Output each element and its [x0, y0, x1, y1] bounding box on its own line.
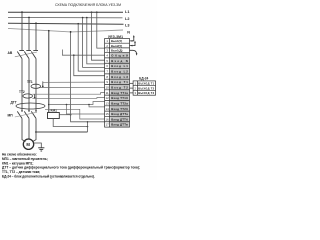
svg-text:ДТТ: ДТТ — [11, 100, 17, 104]
node branch to terminal 14 — [88, 104, 90, 106]
block ED-24 terminal table — [133, 81, 155, 95]
wire UEZ r10 to ED r2 — [130, 87, 134, 89]
bus L1 — [8, 11, 123, 13]
svg-text:Вход Т1: Вход Т1 — [111, 80, 128, 84]
differential transformer DTT — [16, 103, 45, 109]
node tap L3 phase C — [35, 22, 37, 24]
wire TT2 lower to terminal 12 — [32, 97, 104, 100]
svg-text:КМ1 – катушка МП1;: КМ1 – катушка МП1; — [2, 161, 33, 165]
wire riser to terminal 17 line — [87, 122, 89, 132]
node DTT upper junction — [48, 104, 50, 106]
node L1 tap S5 — [91, 11, 93, 13]
svg-text:14: 14 — [106, 107, 110, 111]
svg-text:Вход ДТТа: Вход ДТТа — [111, 112, 128, 116]
wire phase B bottom — [28, 118, 30, 139]
svg-text:Вход Т2: Вход Т2 — [111, 86, 128, 90]
svg-text:12: 12 — [106, 96, 110, 100]
legend — [2, 153, 140, 179]
wire phase B top — [28, 18, 30, 51]
node L2 tap S6 — [86, 17, 88, 19]
wire branch to terminal 8b — [74, 55, 105, 75]
svg-text:Вых1(Д): Вых1(Д) — [111, 49, 122, 53]
svg-text:Вход L3: Вход L3 — [111, 75, 128, 79]
wire TT1 lower to terminal 10 — [41, 86, 105, 88]
wire L1 to terminal 5 — [92, 12, 105, 60]
svg-text:16: 16 — [106, 117, 110, 121]
svg-text:Вход ТТ1б: Вход ТТ1б — [111, 96, 128, 100]
node coil-return junction — [87, 126, 89, 128]
wire UEZ r9 to ED r1 — [130, 82, 134, 84]
wire coil to terminal 17 — [53, 119, 87, 127]
wire phase C bottom — [33, 118, 37, 141]
wire DTT lower to terminal 16 — [45, 109, 105, 119]
TT1 secondary tick — [42, 81, 44, 87]
node tap L2 phase B — [28, 17, 30, 19]
contactor pole 3 — [31, 111, 36, 118]
svg-text:ВЫХОД Т2: ВЫХОД Т2 — [138, 86, 154, 90]
terminal 2 external arrow — [130, 42, 136, 45]
svg-text:10: 10 — [106, 86, 110, 90]
svg-text:11: 11 — [106, 91, 109, 95]
breaker pole 2 — [24, 51, 31, 59]
wire stub to terminal 4 — [62, 50, 104, 56]
wire branch to terminal 14 — [89, 105, 105, 107]
node N drop junction — [70, 114, 72, 116]
svg-text:МП1 – магнитный пускатель;: МП1 – магнитный пускатель; — [2, 157, 48, 161]
breaker pole 3 — [31, 51, 38, 59]
node N drop top — [70, 31, 72, 33]
svg-text:Вход ДТТв: Вход ДТТв — [111, 123, 128, 127]
svg-text:Вход L1: Вход L1 — [111, 64, 128, 68]
block UEZ-3M terminal table — [105, 39, 130, 128]
contactor pole 1 — [17, 111, 22, 118]
svg-text:М: М — [26, 142, 30, 147]
wire phase B middle — [28, 59, 30, 112]
wire UEZ r11 to ED r3 — [130, 92, 134, 94]
contactor pole 2 — [24, 111, 29, 118]
wire phase C monitor tap — [35, 131, 37, 133]
coil KM1 — [48, 113, 60, 119]
svg-text:17: 17 — [106, 123, 110, 127]
TT2 secondary tick — [34, 94, 36, 98]
svg-text:ВЫХОД Т1: ВЫХОД Т1 — [138, 82, 154, 86]
node TT1 — [42, 86, 44, 88]
node L3 tap S8 — [77, 23, 79, 25]
wire coil right to N drop — [59, 114, 70, 116]
wire N drop — [71, 32, 105, 122]
svg-text:13: 13 — [106, 102, 110, 106]
breaker pole 1 — [17, 51, 24, 59]
wire L2 to terminal 6 — [87, 18, 105, 64]
bus L2 — [8, 16, 123, 18]
wire N to coil KM1 — [48, 31, 50, 113]
wire phase A middle — [21, 59, 23, 112]
svg-text:Вход L2: Вход L2 — [111, 70, 128, 74]
wire phase A top — [21, 12, 23, 50]
svg-text:На схеме обозначено:: На схеме обозначено: — [2, 153, 37, 157]
wire L1 to terminal 3 — [97, 12, 105, 48]
node L1 tap S3 — [96, 11, 98, 13]
breaker gang link — [15, 52, 37, 57]
svg-text:Вход N: Вход N — [111, 59, 128, 63]
svg-text:Вход ТТ2а: Вход ТТ2а — [111, 102, 128, 106]
svg-text:N: N — [127, 30, 130, 34]
svg-text:L3: L3 — [125, 23, 129, 27]
svg-text:ДТТ – датчик дифференциального: ДТТ – датчик дифференциального тока (диф… — [2, 166, 140, 170]
svg-text:Вход ДТТб: Вход ДТТб — [111, 117, 128, 121]
terminal 1 external arrow — [130, 37, 134, 41]
node L2 tap S7 — [82, 17, 84, 19]
wire DTT upper to terminal 13 — [49, 102, 105, 105]
wire phase A bottom — [22, 118, 26, 141]
svg-text:Вход ТТ1а: Вход ТТ1а — [111, 91, 128, 95]
svg-text:Вых2(У): Вых2(У) — [111, 44, 122, 48]
svg-text:МП: МП — [8, 114, 14, 118]
ground — [38, 148, 44, 151]
svg-text:ЕД-24 – блок дополнительный (у: ЕД-24 – блок дополнительный (устанавлива… — [2, 175, 95, 179]
contactor pivot dots — [21, 110, 23, 112]
terminal 3 external arrow — [130, 50, 137, 53]
node N tap for coil — [48, 30, 50, 32]
wire TT2 upper to terminal 11 — [32, 93, 104, 95]
node TT2 — [34, 97, 36, 99]
node tap L1 phase A — [21, 11, 23, 13]
wire L2 to terminal 7 — [83, 18, 105, 68]
svg-text:ТТ2: ТТ2 — [19, 90, 25, 94]
wire phase C top — [35, 23, 37, 50]
svg-text:ТТ1, ТТ2 – датчики тока;: ТТ1, ТТ2 – датчики тока; — [2, 170, 40, 174]
current transformer TT1 — [31, 84, 41, 88]
current transformer TT2 — [23, 94, 33, 98]
bus L3 — [8, 23, 124, 24]
svg-text:L2: L2 — [125, 17, 129, 21]
svg-text:L1: L1 — [125, 10, 129, 14]
svg-text:Вход ТТ2б: Вход ТТ2б — [111, 107, 128, 111]
bus N — [8, 28, 123, 32]
svg-text:Вых1(У): Вых1(У) — [111, 39, 122, 43]
svg-text:ВЫХОД Т3: ВЫХОД Т3 — [138, 91, 154, 95]
svg-text:АВ: АВ — [8, 51, 13, 55]
node branch to terminal 15 — [66, 104, 68, 106]
node branch on terminal-4 wire — [73, 54, 75, 56]
svg-text:ТТ1: ТТ1 — [27, 80, 33, 84]
wire phase C middle — [35, 59, 37, 112]
wire branch to terminal 15 — [67, 105, 105, 115]
wire TT1 upper to terminal 9 — [43, 81, 105, 83]
motor M1 — [23, 139, 33, 149]
svg-text:ЕД-24: ЕД-24 — [139, 77, 148, 81]
ground wire — [34, 143, 42, 148]
svg-text:15: 15 — [106, 112, 110, 116]
contactor gang link — [15, 112, 37, 117]
wire L3 to terminal 8 — [78, 24, 104, 71]
svg-text:СХЕМА ПОДКЛЮЧЕНИЯ БЛОКА УЕЗ-3М: СХЕМА ПОДКЛЮЧЕНИЯ БЛОКА УЕЗ-3М — [55, 3, 121, 7]
